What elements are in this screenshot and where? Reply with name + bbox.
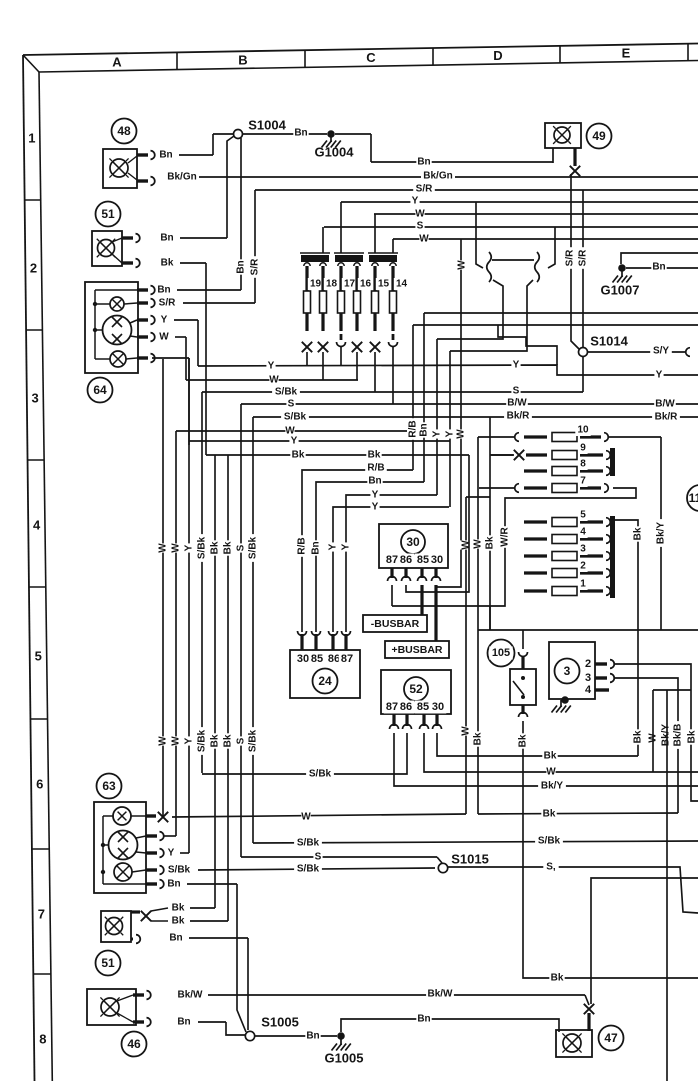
svg-text:+BUSBAR: +BUSBAR [391, 644, 442, 656]
svg-text:Y: Y [291, 436, 298, 447]
relay 52 pin labels [384, 701, 447, 714]
svg-text:Y: Y [184, 737, 195, 744]
fuse 7 [515, 475, 609, 493]
lamp 63 housing [94, 802, 146, 893]
connector X lamp49 [570, 166, 580, 176]
lamp 63 bulb big [103, 831, 146, 860]
wire Bk lamp51 down [159, 257, 206, 455]
svg-text:86: 86 [328, 653, 340, 665]
relay 24 pin labels [295, 653, 356, 666]
lamp 63 bulb top [103, 807, 146, 825]
svg-text:Bn: Bn [169, 933, 182, 944]
svg-text:48: 48 [117, 124, 131, 138]
splice S1014 [579, 334, 629, 357]
lamp 63 pin 3 [146, 849, 164, 858]
ground G1004 [314, 130, 354, 159]
wire S/R vertical a [564, 174, 579, 349]
svg-text:S/Bk: S/Bk [275, 387, 298, 398]
wire relay30 85 busbar [420, 585, 423, 615]
switch 105 box [510, 669, 536, 705]
lamp 51b housing [101, 911, 131, 942]
svg-text:S/Bk: S/Bk [248, 729, 259, 752]
svg-text:S/Bk: S/Bk [248, 536, 259, 559]
fuse 17 [338, 263, 358, 331]
relay 30 pin labels [384, 554, 446, 567]
relay 24 pin 346 [342, 631, 351, 650]
svg-text:Bk: Bk [473, 732, 484, 745]
wire W/R label [499, 526, 511, 548]
wire right verticals labels [647, 721, 698, 749]
wire W lamp64 [159, 331, 186, 380]
svg-text:18: 18 [326, 279, 338, 290]
svg-text:S: S [236, 737, 247, 744]
svg-text:Y: Y [445, 430, 456, 437]
svg-text:Y: Y [372, 490, 379, 501]
wire bundle W x176 [170, 431, 182, 836]
wire Y vertical x450 [444, 351, 456, 507]
wire Bn to S1005 a [237, 884, 246, 1032]
svg-text:87: 87 [341, 653, 353, 665]
busbar minus box [363, 615, 427, 632]
svg-text:5: 5 [35, 649, 42, 664]
wire fuse9 left [491, 454, 513, 456]
svg-text:Bk/Gn: Bk/Gn [167, 172, 196, 183]
svg-text:Bn: Bn [294, 128, 307, 139]
fuse 18 socket X [318, 342, 328, 352]
lamp 48 pin 2 [137, 177, 155, 186]
svg-text:S/Bk: S/Bk [197, 729, 208, 752]
svg-text:19: 19 [310, 279, 322, 290]
wire row y313 [424, 312, 698, 314]
svg-text:8: 8 [39, 1032, 46, 1047]
svg-text:Bn: Bn [306, 1031, 319, 1042]
wire row Y y366 [198, 359, 698, 381]
wire Bk/Y vertical [655, 437, 667, 630]
lamp 64 top wire [95, 289, 137, 291]
wire Bn vertical riser [235, 138, 247, 290]
splice S1015 [438, 852, 488, 873]
svg-text:4: 4 [585, 684, 592, 696]
svg-text:W: W [456, 429, 467, 439]
svg-text:30: 30 [431, 554, 443, 566]
wire fuse14 load [392, 347, 394, 404]
wire Y relay24 a [327, 501, 449, 632]
fuse 8 [524, 458, 610, 476]
svg-text:1: 1 [28, 131, 35, 146]
relay 52 pin 86 [403, 714, 412, 729]
wire lamp49 left pin [552, 148, 554, 163]
wire S/R horizontal [255, 183, 698, 195]
svg-text:R/B: R/B [367, 463, 384, 474]
wire W horizontal row [374, 208, 698, 220]
wire S1014 down [582, 357, 584, 392]
relay 30 pin 87 [388, 568, 397, 581]
svg-text:Bn: Bn [160, 233, 173, 244]
wire squiggle out 1 [437, 280, 503, 339]
lamp unit 48 id circle [112, 119, 137, 144]
svg-text:S1004: S1004 [248, 118, 286, 133]
wire bundle Y x189 [183, 358, 195, 853]
lamp unit 46 id circle [122, 1032, 147, 1057]
svg-text:W: W [158, 736, 169, 746]
lamp 63 internal rail [101, 816, 105, 884]
wire fuse14 supply [392, 239, 394, 253]
svg-text:87: 87 [386, 554, 398, 566]
lamp unit 51 id circle [96, 202, 121, 227]
wire fuse10 left [478, 436, 515, 438]
svg-text:W: W [461, 726, 472, 736]
switch 105 contact [513, 676, 525, 699]
switch 105 bottom pin [519, 705, 528, 717]
relay 30 pin 85 [418, 568, 427, 581]
lamp 64 pin 4 [137, 333, 155, 342]
svg-text:B/W: B/W [655, 399, 675, 410]
wire S row to S1015 [241, 851, 442, 863]
svg-text:S/Bk: S/Bk [309, 769, 332, 780]
svg-text:17: 17 [344, 279, 356, 290]
relay 52 box [381, 670, 451, 714]
wire Bk/Gn (lamp48 to right edge) [165, 170, 698, 183]
svg-text:Bk/Y: Bk/Y [661, 724, 672, 747]
unit 3 ground [552, 696, 571, 712]
svg-text:S: S [315, 852, 322, 863]
relay 30 id circle [401, 530, 425, 554]
wire row y630 [478, 629, 698, 631]
lamp unit 47 id circle [599, 1026, 624, 1051]
svg-text:30: 30 [297, 653, 309, 665]
svg-text:2: 2 [30, 261, 37, 276]
svg-text:Bk/Y: Bk/Y [656, 522, 667, 545]
svg-text:Bk: Bk [368, 450, 381, 461]
lamp 64 bulb big [95, 316, 137, 345]
lamp 51 pin 1 [122, 234, 140, 243]
wire Bk/Y vertical lower [666, 690, 668, 1081]
svg-text:Bn: Bn [159, 150, 172, 161]
wire row Y y441 [189, 435, 450, 447]
svg-text:85: 85 [417, 701, 429, 713]
svg-text:Bk: Bk [292, 450, 305, 461]
wire fuse18 supply [322, 227, 324, 253]
svg-text:64: 64 [93, 383, 107, 397]
svg-text:W: W [419, 234, 429, 245]
svg-text:Bk: Bk [485, 536, 496, 549]
svg-text:Y: Y [184, 544, 195, 551]
svg-text:S/R: S/R [565, 249, 576, 266]
wire fuse18 load [322, 352, 324, 380]
wire S/R lamp64 [156, 297, 255, 309]
wire unit3 pin2 [614, 664, 698, 801]
svg-text:10: 10 [577, 425, 589, 436]
unit 3 box [549, 642, 595, 699]
fuse 14 socket [389, 334, 398, 347]
svg-text:Bn: Bn [419, 423, 430, 436]
wire row S-B/W y404 [241, 397, 698, 410]
svg-text:16: 16 [360, 279, 372, 290]
svg-text:S: S [417, 221, 424, 232]
svg-text:Bn: Bn [157, 285, 170, 296]
svg-text:S/Bk: S/Bk [284, 412, 307, 423]
wire relay30 86 riser [406, 455, 469, 592]
svg-text:Bn: Bn [417, 1014, 430, 1025]
svg-text:Bn: Bn [652, 262, 665, 273]
svg-text:S/Bk: S/Bk [297, 864, 320, 875]
wire fuse15 supply [374, 214, 376, 253]
svg-text:1: 1 [580, 579, 586, 590]
relay 24 pin 316 [312, 631, 321, 650]
fuse 2 [524, 560, 610, 578]
svg-text:W: W [546, 767, 556, 778]
svg-text:Bk/Gn: Bk/Gn [423, 171, 452, 182]
relay 30 box [379, 524, 448, 568]
svg-text:S/R: S/R [416, 184, 433, 195]
svg-text:Y: Y [168, 848, 175, 859]
svg-text:G1004: G1004 [314, 145, 354, 160]
svg-text:11: 11 [689, 491, 698, 505]
wire row S/Bk-S y392 [202, 385, 583, 398]
svg-text:E: E [622, 46, 631, 61]
wire W vertical x461 [437, 239, 468, 587]
lamp 64 bulb bottom [95, 351, 137, 367]
wire relay52 87 Bk row [394, 733, 698, 792]
svg-text:Bk: Bk [223, 541, 234, 554]
svg-text:Bk: Bk [551, 973, 564, 984]
lamp 63 pin 2 [146, 832, 164, 841]
svg-text:51: 51 [101, 956, 115, 970]
svg-text:6: 6 [36, 777, 43, 792]
wire S/Y from S1014 [588, 345, 690, 357]
wire bundle S/Bk x253 [247, 417, 259, 843]
wire fuse16 load [356, 352, 358, 380]
lamp 63 rail bottom wire [103, 883, 146, 885]
svg-text:Bn: Bn [167, 879, 180, 890]
lamp 46 pin 1 [133, 991, 151, 1000]
svg-text:Y: Y [372, 502, 379, 513]
svg-text:W: W [269, 375, 279, 386]
wire relay30 87 to W/R [391, 585, 393, 606]
lamp 64 pin 5 [137, 354, 155, 363]
wire Bk/W row [176, 988, 589, 1005]
svg-text:Bk: Bk [172, 916, 185, 927]
svg-text:G1007: G1007 [600, 283, 639, 298]
svg-text:A: A [112, 55, 122, 70]
svg-text:Bk/W: Bk/W [178, 990, 204, 1001]
lamp 46 bulb [100, 997, 119, 1016]
border corner bevel [23, 55, 39, 72]
wire bundle W x163 [157, 359, 169, 817]
wire bundle Bk x215 [209, 455, 221, 908]
svg-text:W: W [171, 543, 182, 553]
svg-text:C: C [366, 50, 376, 65]
fuse 15 [372, 263, 392, 331]
wire W vertical x653 [653, 690, 691, 772]
svg-text:2: 2 [580, 561, 586, 572]
svg-text:Bn: Bn [417, 157, 430, 168]
wire W left row y817 [172, 811, 466, 823]
splice S1004 [234, 118, 287, 139]
lamp 46 internal leads [117, 995, 133, 1022]
lamp 63 pin 4 [146, 866, 164, 875]
lamp 46 pin 2 [133, 1018, 151, 1027]
svg-text:Bk: Bk [687, 730, 698, 743]
column header band A-E [112, 44, 688, 70]
wire 105 feed [522, 630, 524, 649]
svg-text:Bk: Bk [543, 809, 556, 820]
svg-text:S/R: S/R [250, 258, 261, 275]
svg-text:-BUSBAR: -BUSBAR [371, 618, 420, 630]
svg-text:W: W [159, 332, 169, 343]
wire fuse17 load [340, 347, 342, 366]
lamp 64 pin 3 [137, 316, 155, 325]
fuse 1 [524, 578, 610, 596]
wire Bn relay24 [310, 475, 424, 632]
lamp unit 63 id circle [97, 774, 122, 799]
svg-text:105: 105 [492, 647, 510, 659]
lamp 51 bulb [97, 239, 115, 257]
svg-text:Bk: Bk [172, 903, 185, 914]
svg-text:W: W [457, 260, 468, 270]
relay 52 pin 87 [390, 714, 399, 729]
wire R/B relay24 [296, 462, 413, 632]
lamp 64 bulb top [95, 297, 137, 311]
wire Bk row y814 [478, 808, 678, 820]
svg-text:14: 14 [396, 279, 408, 290]
lamp 63 pin 1 [146, 814, 156, 817]
svg-text:W: W [158, 543, 169, 553]
svg-text:R/B: R/B [297, 537, 308, 554]
lamp 64 pin 2 [137, 299, 155, 308]
svg-text:15: 15 [378, 279, 390, 290]
svg-text:Y: Y [161, 315, 168, 326]
svg-text:30: 30 [432, 701, 444, 713]
wire lamp63 pin2 [164, 835, 176, 837]
svg-text:85: 85 [417, 554, 429, 566]
svg-text:Bn: Bn [368, 476, 381, 487]
svg-text:G1005: G1005 [324, 1051, 363, 1066]
connector X lamp63 pin1 [158, 812, 168, 822]
wire G1004 up-right [335, 134, 371, 162]
fuse 14 [390, 263, 410, 331]
lamp unit 49 id circle [587, 124, 612, 149]
fuse 3 [524, 543, 610, 561]
wire Bn lamp46 [176, 1016, 245, 1035]
wire staircase steps [498, 325, 557, 365]
svg-text:49: 49 [592, 129, 606, 143]
wire S horizontal row [324, 220, 698, 232]
wire lamp51b Bk b [151, 915, 228, 927]
lamp 63 pin 5 [146, 880, 164, 889]
fuse 5 [524, 509, 610, 527]
relay 52 pin 85 [420, 714, 429, 729]
svg-text:Bk: Bk [210, 541, 221, 554]
unit 3 pin3 [585, 672, 614, 684]
wire fuse10 right [608, 436, 661, 438]
svg-text:63: 63 [102, 779, 116, 793]
svg-text:W: W [301, 812, 311, 823]
relay 24 pin 333 [329, 631, 338, 650]
wire Y vertical x437 [431, 339, 443, 495]
row number band 1-8 [25, 131, 51, 1047]
lamp 51b pin upper [131, 910, 140, 913]
lamp 63 bulb bottom [112, 845, 146, 881]
svg-text:S1005: S1005 [261, 1015, 299, 1030]
svg-text:Y: Y [341, 543, 352, 550]
svg-text:S: S [513, 386, 520, 397]
svg-text:B/W: B/W [507, 398, 527, 409]
wire row W y380 [186, 374, 358, 386]
svg-text:Bk: Bk [633, 730, 644, 743]
wire Y lamp64 [159, 314, 198, 366]
lamp 46 housing [87, 989, 136, 1025]
busbar plus box [385, 641, 449, 658]
svg-text:W: W [473, 539, 484, 549]
lamp 47 housing [556, 1030, 592, 1057]
wire squiggle link [492, 259, 534, 261]
squiggle symbol 1 [487, 252, 492, 282]
unit 3 id circle [555, 659, 580, 684]
svg-text:24: 24 [318, 674, 332, 688]
svg-text:52: 52 [409, 682, 423, 696]
fusebox bar top [610, 448, 615, 476]
unit 11 id circle (clipped at edge) [687, 485, 698, 511]
lamp unit 51b id circle [96, 951, 121, 976]
svg-text:S/Bk: S/Bk [197, 536, 208, 559]
lamp 47 pin [587, 1013, 590, 1031]
svg-text:30: 30 [406, 535, 420, 549]
fuse 10 [515, 424, 609, 442]
wire S/R vertical riser [249, 190, 261, 303]
svg-text:Bn: Bn [236, 260, 247, 273]
svg-text:5: 5 [580, 510, 586, 521]
lamp 48 internal leads [128, 156, 137, 180]
svg-text:S1014: S1014 [590, 334, 628, 349]
svg-text:3: 3 [580, 544, 586, 555]
svg-text:S: S [288, 399, 295, 410]
wire fuse7 right W/R chain [392, 488, 636, 630]
svg-text:Bk/R: Bk/R [655, 412, 679, 423]
fuse 15 socket X [370, 342, 380, 352]
ground G1007 [600, 264, 639, 297]
lamp 49 housing [545, 123, 581, 148]
lamp unit 64 id circle [88, 378, 113, 403]
wire Y relay24 b [340, 489, 437, 632]
svg-text:S/Bk: S/Bk [168, 865, 191, 876]
wire Bk label x491 [484, 535, 496, 550]
svg-text:W: W [415, 209, 425, 220]
svg-text:Bk/R: Bk/R [507, 411, 531, 422]
svg-text:Y: Y [513, 360, 520, 371]
lamp 48 pin 1 [137, 151, 155, 160]
lamp 49 bottom pin [573, 148, 576, 166]
svg-text:S/Y: S/Y [653, 346, 669, 357]
connector X lamp47 [584, 1004, 594, 1014]
wire lamp51b Bk a [151, 902, 215, 914]
svg-text:3: 3 [585, 672, 591, 684]
svg-text:Bk: Bk [518, 734, 529, 747]
fuse 19 [304, 263, 324, 331]
wire Bk/R leg to fuse9 [466, 417, 514, 630]
relay 52 id circle [404, 677, 428, 701]
relay 52 pin 30 [433, 714, 442, 729]
wire Bn to lamp49 [371, 156, 553, 168]
wire Bn lamp48 [158, 134, 233, 161]
wire W vertical x478 [472, 437, 484, 814]
relay 24 box [290, 650, 360, 698]
relay 24 pin 302 [298, 631, 307, 650]
svg-text:W/R: W/R [500, 527, 511, 547]
wire 105 Bk down [517, 721, 698, 984]
splice S1005 [245, 1015, 298, 1041]
wire R/B vertical x413 [407, 325, 419, 470]
